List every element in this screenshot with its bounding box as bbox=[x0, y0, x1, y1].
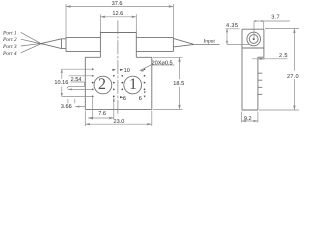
svg-text:2.5: 2.5 bbox=[279, 53, 288, 59]
dimension 4.35 bbox=[225, 29, 250, 45]
pin1/pin10 markers bbox=[113, 69, 124, 71]
centerline vertical bbox=[117, 21, 119, 116]
dimension 2.5 bbox=[252, 57, 288, 60]
pin row 1 bbox=[92, 68, 94, 70]
svg-text:37.6: 37.6 bbox=[112, 1, 123, 7]
svg-text:Port 3: Port 3 bbox=[2, 44, 17, 50]
end view circle inner bbox=[249, 35, 258, 44]
bottom view outline bbox=[85, 57, 152, 109]
svg-text:3.66: 3.66 bbox=[61, 104, 72, 110]
svg-text:18.5: 18.5 bbox=[173, 81, 184, 87]
svg-text:Port 2: Port 2 bbox=[2, 37, 17, 43]
dimension 18.5 bbox=[153, 57, 183, 109]
svg-text:6: 6 bbox=[139, 96, 142, 102]
svg-text:10.16: 10.16 bbox=[54, 80, 68, 86]
dimension 9.2 bbox=[242, 112, 258, 123]
pin row 4 bbox=[92, 89, 94, 91]
right cone taper bbox=[173, 38, 194, 47]
dimension 3.7 bbox=[254, 21, 290, 39]
dimension 27.0 bbox=[259, 29, 299, 111]
dimension 7.6 bbox=[88, 98, 114, 120]
dimension 23.0 bbox=[85, 111, 152, 127]
svg-text:2: 2 bbox=[98, 76, 106, 93]
pin holes 20X bbox=[92, 68, 145, 97]
svg-text:2.54: 2.54 bbox=[71, 77, 82, 83]
svg-text:3.7: 3.7 bbox=[271, 14, 280, 20]
port fiber leads bbox=[21, 32, 43, 52]
body (side view cylinder) bbox=[66, 37, 173, 51]
svg-text:4.35: 4.35 bbox=[226, 23, 238, 29]
svg-text:6: 6 bbox=[123, 96, 126, 102]
dimension 2.54 (pin pitch) bbox=[61, 69, 93, 89]
pin row 3 bbox=[92, 82, 94, 84]
pin row 5 bbox=[92, 96, 94, 98]
svg-text:Port 4: Port 4 bbox=[2, 51, 17, 57]
dimension 3.66 bbox=[68, 99, 85, 107]
svg-text:10: 10 bbox=[124, 68, 130, 74]
svg-text:7.6: 7.6 bbox=[98, 111, 106, 117]
svg-text:9.2: 9.2 bbox=[244, 116, 252, 122]
input fiber bbox=[194, 43, 220, 45]
svg-text:Port 1: Port 1 bbox=[2, 30, 17, 36]
svg-text:1: 1 bbox=[129, 76, 137, 93]
pin row 2 bbox=[92, 75, 94, 77]
circle 1 (bottom view) bbox=[124, 76, 142, 94]
svg-text:12.6: 12.6 bbox=[112, 11, 123, 17]
end view circle outer bbox=[247, 32, 261, 46]
circle 2 (bottom view) bbox=[94, 76, 112, 94]
dimension 37.6 bbox=[66, 4, 173, 37]
end view outline bbox=[242, 29, 264, 110]
end view pin ticks bbox=[258, 73, 262, 94]
left cone taper and neck bbox=[41, 39, 66, 49]
svg-text:Input: Input bbox=[203, 38, 216, 44]
dimension 10.16 bbox=[62, 69, 93, 96]
flange block (side view square section) bbox=[100, 32, 136, 58]
dimension 12.6 bbox=[100, 14, 136, 31]
pin 6 markers bbox=[120, 92, 146, 99]
svg-text:23.0: 23.0 bbox=[114, 119, 125, 125]
svg-text:20X⌀0.5: 20X⌀0.5 bbox=[152, 61, 173, 67]
svg-text:27.0: 27.0 bbox=[287, 74, 299, 80]
end view center dot bbox=[253, 38, 255, 40]
